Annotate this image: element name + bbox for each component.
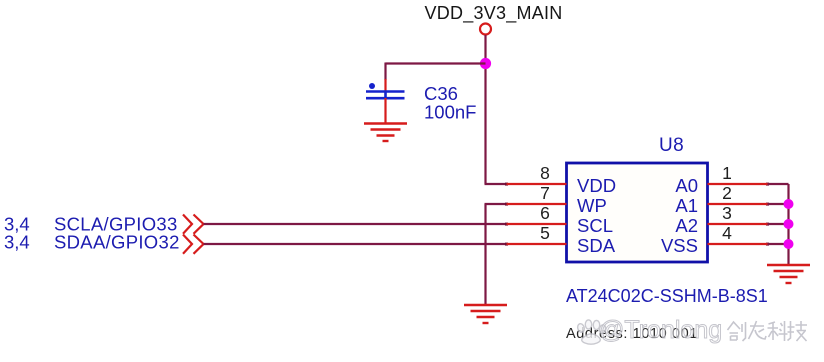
wire-end markers at pin connections	[505, 183, 769, 246]
svg-text:SDA: SDA	[577, 235, 616, 256]
wire WP down to ground	[484, 204, 486, 305]
wire VDD stub to pin 8	[485, 183, 508, 185]
ground below address pins	[767, 265, 810, 283]
svg-text:8: 8	[540, 163, 550, 183]
svg-text:100nF: 100nF	[424, 102, 476, 123]
capacitor C36 polarity dot	[369, 83, 375, 89]
wire horizontal junction to capacitor C36	[386, 62, 486, 64]
pin 3 line (A2)	[708, 223, 768, 225]
wire pin4 to vertical bus	[768, 243, 789, 245]
svg-text:WP: WP	[577, 195, 607, 216]
svg-text:4: 4	[722, 223, 732, 243]
svg-text:SCL: SCL	[577, 215, 613, 236]
pin 7 line (WP)	[507, 203, 567, 205]
pin 5 line (SDA)	[507, 243, 567, 245]
svg-text:3: 3	[722, 203, 732, 223]
svg-text:6: 6	[540, 203, 550, 223]
ground below WP wire	[464, 305, 507, 323]
svg-text:A0: A0	[675, 175, 698, 196]
capacitor C36 top pin	[384, 79, 386, 91]
svg-text:3,4: 3,4	[4, 232, 30, 253]
svg-text:1: 1	[722, 163, 732, 183]
wire pin3 to vertical bus	[768, 223, 789, 225]
wire vertical down to capacitor C36 top pin	[384, 63, 386, 81]
wire pin1 to vertical bus	[768, 183, 789, 185]
svg-text:U8: U8	[659, 135, 684, 156]
svg-text:7: 7	[540, 183, 550, 203]
wire vertical bus A0-A1-A2-VSS to ground	[787, 184, 789, 265]
wire vertical from power port to pin 8 row	[484, 35, 486, 184]
IC U8 body	[567, 163, 708, 262]
pin 1 line (A0)	[708, 183, 768, 185]
pin 2 line (A1)	[708, 203, 768, 205]
wire pin2 to vertical bus	[768, 203, 789, 205]
wire WP stub to pin 7	[485, 203, 508, 205]
capacitor C36 bottom pin	[384, 98, 386, 123]
junction node A2	[784, 219, 794, 229]
watermark glyphs (CJK outline imitation)	[728, 321, 808, 341]
capacitor C36 plates	[366, 92, 405, 99]
svg-text:A2: A2	[675, 215, 698, 236]
junction node VDD_3V3_MAIN	[480, 58, 491, 69]
ground below capacitor C36	[364, 124, 407, 142]
svg-text:VDD: VDD	[577, 175, 616, 196]
svg-text:5: 5	[540, 223, 550, 243]
off-sheet chevron port SDAA	[183, 235, 204, 254]
junction node VSS	[784, 239, 794, 249]
svg-text:2: 2	[722, 183, 732, 203]
svg-text:@Tronlong: @Tronlong	[599, 316, 722, 344]
wire SDA net	[204, 243, 508, 245]
pin 6 line (SCL)	[507, 223, 567, 225]
junction node A1	[784, 199, 794, 209]
wire SCL net	[204, 223, 508, 225]
watermark paw icon	[577, 320, 607, 344]
svg-text:A1: A1	[675, 195, 698, 216]
svg-text:SDAA/GPIO32: SDAA/GPIO32	[54, 232, 180, 253]
svg-text:VDD_3V3_MAIN: VDD_3V3_MAIN	[424, 3, 562, 24]
off-sheet chevron port SCLA	[183, 215, 204, 234]
svg-text:AT24C02C-SSHM-B-8S1: AT24C02C-SSHM-B-8S1	[566, 286, 768, 306]
svg-text:VSS: VSS	[661, 235, 698, 256]
pin 8 line (VDD)	[507, 183, 567, 185]
power port circle VDD_3V3_MAIN	[480, 24, 491, 35]
pin 4 line (VSS)	[708, 243, 768, 245]
